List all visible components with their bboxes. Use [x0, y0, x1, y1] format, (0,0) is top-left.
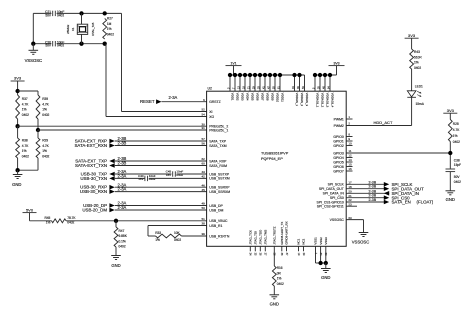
wire 3V3 rail [336, 66, 338, 75]
svg-text:50V: 50V [45, 44, 52, 48]
svg-text:GPIO1: GPIO1 [333, 139, 343, 143]
svg-text:GPIO2: GPIO2 [333, 144, 343, 148]
svg-text:16V: 16V [138, 177, 143, 181]
svg-text:SPI_DATA_OUT: SPI_DATA_OUT [319, 187, 344, 191]
ground [273, 286, 275, 295]
svg-text:0402: 0402 [414, 66, 421, 70]
svg-text:50V: 50V [454, 175, 461, 179]
ground VSSOSC [359, 232, 369, 234]
node GPIO3 junction [448, 151, 452, 155]
svg-text:46: 46 [201, 183, 205, 187]
ground [17, 170, 19, 174]
svg-text:SATA_RXP: SATA_RXP [209, 159, 227, 163]
pin 36 GPIO8-UART_TX [281, 246, 283, 251]
wire XI [121, 13, 123, 111]
svg-text:GPIO5: GPIO5 [333, 160, 343, 164]
wire GRSTZ [162, 101, 207, 103]
svg-text:0402: 0402 [277, 282, 284, 286]
svg-text:1M: 1M [107, 22, 112, 26]
svg-text:XO: XO [209, 115, 214, 119]
wire [115, 209, 207, 211]
svg-text:VDD11: VDD11 [280, 93, 284, 102]
svg-text:GPIO6: GPIO6 [333, 165, 343, 169]
pin 60 VSS3 [325, 246, 327, 263]
pin 37 GPIO9-UART_RX [286, 246, 288, 251]
svg-text:78.7K: 78.7K [67, 216, 76, 220]
wire [411, 69, 413, 91]
node R37/R39 split [15, 89, 19, 93]
svg-text:49: 49 [201, 202, 205, 206]
svg-text:2-3A: 2-3A [118, 174, 127, 179]
svg-text:2-3B: 2-3B [369, 180, 377, 184]
svg-text:SATA_TXM: SATA_TXM [209, 144, 227, 148]
resistor R33 [156, 234, 182, 238]
svg-text:2-3A: 2-3A [118, 205, 127, 210]
pin VDDA33_3 [324, 75, 326, 91]
net SPI_SCLK [346, 183, 384, 185]
svg-text:51: 51 [201, 217, 205, 221]
svg-text:USB_R1: USB_R1 [209, 224, 222, 228]
svg-text:39: 39 [201, 232, 205, 236]
svg-text:VDD8: VDD8 [265, 93, 269, 101]
resistor R16 [272, 266, 276, 286]
svg-text:VDD9: VDD9 [270, 93, 274, 101]
pin VDDHS_2 [299, 75, 301, 91]
svg-text:VDDA33_3: VDDA33_3 [325, 93, 329, 108]
svg-text:VDDHS_3: VDDHS_3 [305, 93, 309, 107]
svg-text:VSS3: VSS3 [324, 237, 328, 245]
svg-text:(FLOAT): (FLOAT) [417, 200, 434, 205]
svg-text:U2: U2 [208, 87, 212, 91]
svg-text:GPIO4: GPIO4 [333, 156, 343, 160]
svg-text:GND: GND [111, 263, 120, 268]
svg-text:SPI_CS2-GPIO11: SPI_CS2-GPIO11 [317, 205, 344, 209]
op-amp U2 TUSB9261IPVP [207, 91, 347, 246]
svg-text:GRSTZ: GRSTZ [209, 100, 221, 104]
resistor R45 [52, 219, 67, 223]
wire USB_VBUC [66, 220, 207, 222]
capacitor C40 [144, 176, 146, 181]
svg-text:10K: 10K [174, 231, 181, 235]
svg-text:SPI_SCLK: SPI_SCLK [328, 183, 345, 187]
pin 25 JTAG_TDI [254, 246, 256, 251]
svg-text:GPIO8-UART_TX: GPIO8-UART_TX [280, 222, 284, 245]
svg-text:VDD2: VDD2 [235, 93, 239, 101]
svg-text:VDD5: VDD5 [250, 93, 254, 101]
pin VDD3 [239, 75, 241, 91]
node R27-top junction [103, 11, 107, 15]
svg-text:R29: R29 [42, 139, 48, 143]
pin VDD9 [269, 75, 271, 91]
pin VDD2 [234, 75, 236, 91]
pin VDDHS_1 [294, 75, 296, 91]
net SPI_CS0 [346, 197, 384, 199]
svg-text:R45: R45 [44, 216, 50, 220]
svg-text:XTAL_7x5: XTAL_7x5 [91, 22, 95, 36]
wire VSSOSC [346, 219, 363, 221]
wire [115, 205, 207, 207]
wire [32, 13, 34, 43]
wire [177, 173, 207, 175]
wire [115, 186, 207, 188]
svg-text:PWM2: PWM2 [334, 124, 344, 128]
capacitor C20 [52, 41, 54, 46]
svg-text:USB_SSRXM: USB_SSRXM [209, 190, 230, 194]
wire [17, 158, 19, 170]
svg-text:3V3: 3V3 [14, 76, 22, 81]
svg-text:GND: GND [321, 275, 330, 280]
svg-text:VDDHS_1: VDDHS_1 [295, 93, 299, 107]
svg-text:NC1: NC1 [297, 238, 301, 244]
wire [57, 12, 122, 14]
wire [57, 43, 106, 45]
net SPI_DATA_OUT [346, 188, 384, 190]
svg-text:SATA_EN: SATA_EN [392, 200, 411, 205]
pin 7 VSS1 [315, 246, 317, 263]
node GND junction [15, 168, 19, 172]
resistor R38 [17, 126, 19, 138]
capacitor C38 [446, 168, 456, 170]
svg-text:0R: 0R [277, 271, 282, 275]
svg-text:4.7K: 4.7K [22, 144, 29, 148]
pin 19 NC1 [298, 246, 300, 251]
svg-text:R39: R39 [42, 97, 48, 101]
pin VDD10 [274, 75, 276, 91]
node crystal-bottom junction [79, 42, 83, 46]
capacitor C45 [172, 171, 174, 176]
wire HDD_ACT [411, 97, 413, 125]
pin 26 JTAG_TDO [259, 246, 261, 251]
svg-text:GND: GND [446, 197, 455, 202]
wire PREG25L_2 [18, 125, 207, 127]
svg-text:2-3B: 2-3B [369, 185, 377, 189]
svg-text:43: 43 [201, 170, 205, 174]
svg-text:USB-20_DM: USB-20_DM [82, 207, 107, 212]
svg-text:62: 62 [201, 157, 205, 161]
svg-text:PWM1: PWM1 [334, 117, 344, 121]
svg-text:4.7K: 4.7K [42, 144, 49, 148]
svg-text:2-3B: 2-3B [369, 198, 377, 202]
svg-text:JTAG_TDI: JTAG_TDI [254, 231, 258, 245]
svg-text:VDD7: VDD7 [260, 93, 264, 101]
ground VSSOSC [32, 44, 34, 51]
pin 27 JTAG_TMS [264, 246, 266, 251]
crystal X1 [81, 13, 83, 24]
pin VDDA33_1 [314, 75, 316, 91]
node VSS junction [318, 261, 322, 265]
wire PREG25L_1 [38, 129, 207, 131]
svg-text:USB_DP: USB_DP [209, 204, 223, 208]
svg-text:X1: X1 [71, 27, 75, 31]
svg-text:1%: 1% [107, 27, 112, 31]
svg-text:USB_DM: USB_DM [209, 208, 223, 212]
svg-text:R28: R28 [453, 122, 459, 126]
svg-text:0402: 0402 [42, 154, 49, 158]
net SATA_EN [346, 201, 384, 203]
svg-text:R33: R33 [155, 231, 161, 235]
wire GPIO3 [346, 152, 450, 154]
svg-text:VDDA33_2: VDDA33_2 [320, 93, 324, 108]
pin VDD11 [279, 75, 281, 91]
wire [33, 12, 51, 14]
svg-text:57: 57 [201, 137, 205, 141]
node R27-bottom junction [103, 42, 107, 46]
wire [115, 173, 172, 175]
svg-text:2-3A: 2-3A [169, 95, 178, 100]
svg-text:3V3: 3V3 [408, 33, 416, 38]
svg-text:42: 42 [201, 175, 205, 179]
svg-text:1%: 1% [155, 238, 160, 242]
svg-text:USB_SSTXP: USB_SSTXP [209, 172, 230, 176]
svg-text:R37: R37 [22, 97, 28, 101]
svg-text:0402: 0402 [149, 177, 156, 181]
pin VDDHS_3 [304, 75, 306, 91]
ground [446, 190, 456, 192]
svg-text:0402: 0402 [42, 113, 49, 117]
wire [37, 119, 39, 130]
svg-text:2-3B: 2-3B [118, 141, 127, 146]
svg-text:0402: 0402 [453, 140, 460, 144]
pin VDD4 [244, 75, 246, 91]
svg-text:0402: 0402 [174, 238, 181, 242]
svg-text:4.7K: 4.7K [453, 128, 460, 132]
svg-text:USB_SSRXP: USB_SSRXP [209, 186, 230, 190]
svg-text:XI: XI [209, 110, 212, 114]
svg-text:1%: 1% [414, 61, 419, 65]
svg-text:VDD1: VDD1 [230, 93, 234, 101]
svg-text:9.88K: 9.88K [119, 234, 128, 238]
svg-text:45: 45 [201, 188, 205, 192]
ground [325, 263, 327, 269]
svg-text:1%: 1% [42, 108, 47, 112]
svg-text:2-3B: 2-3B [369, 189, 377, 193]
wire [33, 43, 51, 45]
ground [115, 247, 117, 256]
wire [449, 172, 451, 191]
svg-text:50: 50 [201, 206, 205, 210]
wire [18, 90, 38, 92]
resistor R39 [36, 95, 40, 119]
wire [115, 191, 207, 193]
resistor R37 [16, 95, 20, 119]
svg-text:50V: 50V [45, 14, 52, 18]
wire [411, 38, 413, 49]
svg-text:1%: 1% [277, 277, 282, 281]
svg-text:1%: 1% [22, 108, 27, 112]
svg-text:3V3: 3V3 [447, 108, 455, 113]
resistor R43 [410, 49, 414, 69]
pin 34 VSS2 [320, 246, 322, 263]
svg-text:1%: 1% [453, 134, 458, 138]
svg-text:GPIO7: GPIO7 [333, 169, 343, 173]
svg-text:0.1%: 0.1% [119, 239, 126, 243]
svg-text:RESET: RESET [140, 99, 155, 104]
svg-text:5V0: 5V0 [26, 207, 34, 212]
svg-text:USB_VBUC: USB_VBUC [209, 219, 228, 223]
pin VDD6 [254, 75, 256, 91]
wire [17, 81, 19, 95]
svg-text:TUSB9261IPVP: TUSB9261IPVP [261, 152, 289, 156]
wire [316, 262, 326, 264]
pin VDD8 [264, 75, 266, 91]
svg-text:NC2: NC2 [302, 238, 306, 244]
svg-text:VSS1: VSS1 [314, 237, 318, 245]
svg-text:0402: 0402 [22, 154, 29, 158]
wire [29, 213, 31, 221]
svg-text:0402: 0402 [57, 14, 64, 18]
svg-text:510R: 510R [414, 55, 422, 59]
svg-text:VSS2: VSS2 [319, 237, 323, 245]
svg-text:1%: 1% [46, 221, 51, 225]
wire [115, 160, 207, 162]
pin VDDA33_4 [329, 75, 331, 91]
svg-text:0402: 0402 [454, 180, 461, 184]
node XI-rail junction [79, 11, 83, 15]
svg-text:31: 31 [201, 126, 205, 130]
svg-text:SATA-EXT_RXN: SATA-EXT_RXN [74, 143, 107, 148]
svg-text:C38: C38 [454, 159, 460, 163]
svg-text:1V1: 1V1 [230, 61, 236, 65]
svg-text:USB-30_TXN: USB-30_TXN [80, 176, 107, 181]
svg-text:LED1: LED1 [415, 84, 423, 88]
svg-text:SATA_TXP: SATA_TXP [209, 139, 227, 143]
svg-text:VDDA33_4: VDDA33_4 [330, 93, 334, 108]
svg-text:1%: 1% [22, 149, 27, 153]
svg-text:0402: 0402 [107, 32, 114, 36]
wire 1V1 rail [233, 66, 235, 75]
svg-text:SPI_DATA_IN: SPI_DATA_IN [323, 192, 345, 196]
svg-text:R43: R43 [414, 50, 420, 54]
pin VDDA33_2 [319, 75, 321, 91]
pin VDD1 [229, 75, 231, 91]
svg-text:GND: GND [12, 182, 21, 187]
svg-text:0402: 0402 [22, 113, 29, 117]
svg-text:VDDA33_1: VDDA33_1 [315, 93, 319, 108]
svg-text:SATA-EXT_TXN: SATA-EXT_TXN [75, 163, 107, 168]
svg-text:JTAG_TRSTZ: JTAG_TRSTZ [273, 226, 277, 244]
svg-text:4.7K: 4.7K [42, 102, 49, 106]
wire [273, 246, 275, 266]
svg-text:HDD_ACT: HDD_ACT [374, 120, 393, 125]
wire USB_R1RTN [182, 235, 207, 237]
resistor R27 [103, 19, 107, 40]
wire [149, 177, 207, 179]
svg-text:GPIO0: GPIO0 [333, 135, 343, 139]
svg-text:2-3A: 2-3A [118, 187, 127, 192]
svg-text:USB-30_RXN: USB-30_RXN [80, 189, 107, 194]
pin 24 JTAG_TCK [249, 246, 251, 251]
net SPI_DATA_IN [346, 192, 389, 194]
svg-text:3V3: 3V3 [333, 61, 339, 65]
svg-text:4.7K: 4.7K [22, 102, 29, 106]
svg-text:GPIO3: GPIO3 [333, 151, 343, 155]
svg-text:R27: R27 [107, 17, 113, 21]
svg-text:GPIO9-UART_RX: GPIO9-UART_RX [285, 221, 289, 244]
wire [115, 145, 207, 147]
node PREG25L_2 junction [15, 124, 19, 128]
svg-text:0402: 0402 [119, 245, 126, 249]
resistor R29 [37, 130, 39, 138]
svg-text:1%: 1% [42, 149, 47, 153]
svg-text:VSSOSC: VSSOSC [352, 239, 369, 244]
svg-text:PQFP64_EP: PQFP64_EP [261, 157, 283, 161]
svg-text:R38: R38 [22, 139, 28, 143]
svg-text:VDD4: VDD4 [245, 93, 249, 101]
svg-text:PREG25L_1: PREG25L_1 [209, 128, 228, 132]
svg-text:R16: R16 [277, 266, 283, 270]
svg-text:38: 38 [201, 222, 205, 226]
pin VDD7 [259, 75, 261, 91]
node VBUS junction [114, 219, 118, 223]
svg-text:56: 56 [201, 142, 205, 146]
svg-text:VDD3: VDD3 [240, 93, 244, 101]
svg-text:VDD6: VDD6 [255, 93, 259, 101]
pin VDD5 [249, 75, 251, 91]
svg-text:JTAG_TMS: JTAG_TMS [264, 230, 268, 245]
node left rail junction [31, 42, 35, 46]
svg-text:VSSOSC: VSSOSC [330, 218, 345, 222]
resistor R28 [448, 120, 452, 142]
svg-text:25MHz: 25MHz [66, 24, 70, 34]
capacitor C21 [52, 11, 54, 16]
node PREG25L_1 junction [36, 128, 40, 132]
wire [115, 165, 207, 167]
wire XO [105, 44, 107, 117]
svg-text:VSSOSC: VSSOSC [25, 58, 42, 63]
resistor R47 [115, 221, 117, 227]
svg-text:16V: 16V [166, 173, 171, 177]
svg-text:JTAG_TCK: JTAG_TCK [249, 230, 253, 245]
svg-text:USB_R1RTN: USB_R1RTN [209, 234, 230, 238]
svg-text:VDDHS_2: VDDHS_2 [300, 93, 304, 107]
svg-text:15mA: 15mA [416, 102, 425, 106]
svg-text:54: 54 [201, 113, 205, 117]
svg-text:60: 60 [201, 162, 205, 166]
wire [449, 113, 451, 119]
svg-text:0402: 0402 [176, 173, 183, 177]
svg-text:SATA_RXM: SATA_RXM [209, 164, 227, 168]
svg-text:52: 52 [201, 108, 205, 112]
wire [115, 177, 145, 179]
svg-text:GND: GND [270, 302, 279, 307]
svg-text:VDD10: VDD10 [275, 93, 279, 103]
svg-text:0402: 0402 [57, 44, 64, 48]
wire USB_R1 [148, 225, 207, 227]
svg-text:JTAG_TDO: JTAG_TDO [259, 229, 263, 245]
pin 29 NC2 [303, 246, 305, 251]
svg-text:15pF: 15pF [454, 163, 461, 167]
svg-text:USB_SSTXM: USB_SSTXM [209, 177, 230, 181]
wire [17, 119, 19, 126]
svg-text:R47: R47 [119, 229, 125, 233]
svg-text:2-3B: 2-3B [118, 161, 127, 166]
wire [115, 140, 207, 142]
